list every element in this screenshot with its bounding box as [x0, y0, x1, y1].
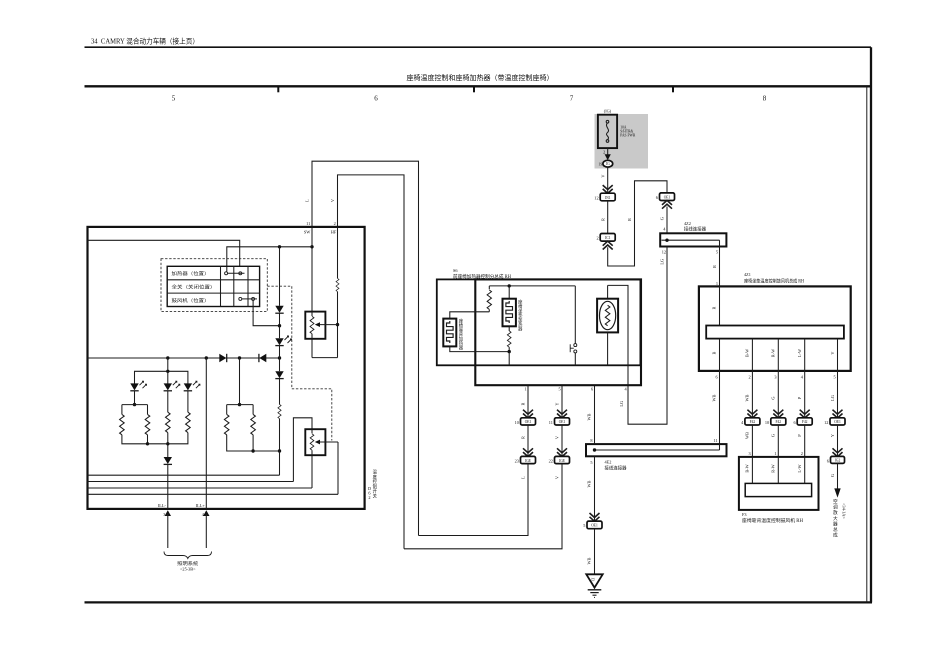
potentiometer VR1 heater level [305, 312, 337, 358]
svg-text:S6: S6 [453, 268, 458, 273]
header rule [85, 46, 872, 48]
diode D4 below rail [275, 358, 283, 405]
svg-text:5: 5 [172, 95, 176, 103]
svg-text:关: 关 [373, 493, 378, 500]
svg-text:V: V [330, 198, 335, 202]
seat heater elements box [437, 279, 641, 365]
svg-text:R: R [600, 218, 605, 221]
pin ILL- arrow [158, 503, 171, 548]
svg-text:R: R [712, 306, 717, 309]
wire WB to ground [587, 529, 595, 575]
svg-text:V: V [600, 174, 605, 178]
svg-text:6: 6 [793, 420, 796, 425]
wire R pin1 to 10(OE1) [520, 385, 528, 418]
temperature control switch box D62 [88, 227, 378, 509]
svg-text:L: L [304, 199, 309, 202]
svg-text:3: 3 [163, 512, 165, 517]
4Z1 internal feed wire R [712, 286, 720, 325]
svg-text:23: 23 [515, 458, 519, 463]
svg-text:10: 10 [765, 420, 769, 425]
LED indicator chain [275, 326, 291, 358]
LED L1 [130, 381, 146, 406]
wire P to F3 pin2 [797, 425, 805, 457]
wire R to 23(IGE) [520, 425, 528, 456]
wire L elbow to switch SW line [419, 464, 529, 536]
connector 10(F42) [765, 418, 786, 425]
zone ruler [85, 86, 872, 92]
pins 1 5 6 4 of S6 [525, 387, 628, 392]
connector 12(IN1) [594, 193, 615, 201]
svg-text:L-W: L-W [797, 348, 802, 357]
wire SW branch [227, 227, 314, 312]
ground point CI [586, 574, 602, 597]
chevron above 11(OE1) [557, 410, 567, 418]
wire WB seat box pin6 to junction pin 8 [587, 385, 595, 444]
4Z1 pins 6 2 3 4 5 [716, 374, 836, 379]
svg-text:6: 6 [827, 458, 830, 463]
svg-text:G: G [771, 396, 776, 399]
svg-text:F42: F42 [750, 420, 756, 424]
diode D1 on rail (points right) [219, 354, 226, 362]
svg-text:4: 4 [663, 227, 666, 232]
connector 4(F42) [741, 418, 760, 425]
svg-text:6: 6 [591, 387, 594, 392]
svg-text:F3: F3 [742, 512, 747, 517]
chevron above 4(F42) [747, 410, 757, 418]
junction connector 4Z2 [660, 221, 726, 254]
wire sensor top to pin 4 column [608, 285, 628, 385]
LED L2 [164, 381, 180, 412]
wire HF branch with resistor [336, 227, 339, 358]
seat temperature sensor [597, 285, 618, 365]
LED L3 [184, 381, 200, 412]
svg-text:IGE: IGE [559, 459, 566, 463]
svg-text:WB: WB [587, 413, 592, 420]
svg-text:PAS PWR: PAS PWR [620, 133, 636, 137]
svg-text:Y: Y [830, 434, 835, 437]
blower position contact [239, 297, 257, 300]
svg-text:IG: IG [606, 162, 610, 166]
svg-text:IG2: IG2 [835, 459, 841, 463]
right border thin [866, 86, 868, 602]
resistor pair P2 feed [238, 358, 241, 406]
zone numbers 5 6 7 8 [172, 95, 767, 103]
svg-text:前座椅加热器控制分总成 RH: 前座椅加热器控制分总成 RH [453, 273, 512, 280]
chevron below OE1 [662, 200, 672, 208]
wire loop IC1 to 6(OE1) with R [608, 181, 667, 266]
svg-text:L: L [520, 476, 525, 479]
connector 1S(IG) oval [599, 160, 613, 167]
svg-text:R-W: R-W [771, 348, 776, 357]
connector 22(IGE) [549, 456, 570, 463]
connector 6(F42) [793, 418, 812, 425]
svg-text:接线连接器: 接线连接器 [684, 226, 706, 233]
wire G to 10(F42) [771, 371, 779, 418]
svg-text:5: 5 [590, 460, 592, 465]
wire V to 12(IN1) [600, 167, 607, 193]
svg-text:V: V [830, 351, 835, 355]
svg-text:座椅温度控制和座椅加热器（带温度控制座椅）: 座椅温度控制和座椅加热器（带温度控制座椅） [407, 73, 554, 82]
blower assy 4Z1 box [699, 272, 851, 371]
svg-text:P: P [797, 396, 802, 399]
LED group top feed [135, 358, 188, 384]
svg-text:LG: LG [660, 259, 665, 265]
svg-text:6: 6 [656, 195, 659, 200]
heater position contact [225, 272, 245, 275]
svg-text:空: 空 [833, 498, 838, 505]
top rail node A [489, 284, 575, 287]
potentiometer VR2 temperature [293, 418, 338, 495]
resistor pair P2 [224, 405, 279, 453]
seat heater control sub-assy box S6 [453, 268, 641, 385]
wire WB 4Z1 pin6 to junction pin 11 [712, 371, 720, 444]
svg-text:OE1: OE1 [664, 196, 671, 200]
wire Y 12(OE1) to 6(IG2) [830, 425, 838, 456]
svg-text:R: R [627, 218, 632, 221]
svg-text:L-W: L-W [797, 464, 802, 473]
connector 5(OE1) [583, 521, 602, 529]
wire P to 6(F42) [797, 371, 805, 418]
svg-text:34 CAMRY 混合动力车辆（接上页）: 34 CAMRY 混合动力车辆（接上页） [91, 37, 199, 46]
svg-text:1: 1 [716, 281, 718, 286]
output bus lines [88, 475, 339, 494]
indicator feed rail [88, 356, 282, 359]
bottom frame line [85, 601, 873, 603]
svg-text:3: 3 [748, 451, 750, 456]
mechanical link dashed [267, 286, 332, 440]
svg-text:ILL+: ILL+ [196, 503, 206, 508]
chevron above 10(OE1) [523, 410, 533, 418]
svg-text:WB: WB [587, 557, 592, 564]
svg-text:器: 器 [833, 521, 838, 527]
chevron above IN1 [603, 185, 613, 193]
chevron above 6(IG2) [833, 448, 843, 456]
svg-text:全关（关闭位置）: 全关（关闭位置） [172, 284, 216, 291]
wire ILL+ [205, 358, 207, 509]
wire V to 22(IGE) [554, 425, 562, 456]
svg-text:4: 4 [625, 387, 628, 392]
svg-text:IGE: IGE [525, 459, 532, 463]
svg-text:OE1: OE1 [525, 420, 532, 424]
svg-text:R: R [520, 436, 525, 439]
svg-text:LG: LG [830, 395, 835, 401]
svg-text:4Z2: 4Z2 [684, 221, 691, 226]
seat cushion heater element [503, 286, 524, 333]
wire WB junction pin5 to 5(OE1) [587, 456, 595, 521]
blower F3 box [739, 457, 819, 524]
diagram title [407, 73, 554, 82]
svg-text:OE1: OE1 [591, 524, 598, 528]
connector 2(IC1) [596, 234, 615, 242]
header page title [91, 37, 199, 46]
seatback heater element [443, 318, 463, 352]
wire V riser to switch pin 2 [330, 175, 404, 549]
svg-text:G: G [771, 434, 776, 437]
wire R to 2(IC1) [600, 201, 607, 234]
chevron above 23(IGE) [523, 448, 533, 456]
wire L riser to switch pin 11 [304, 161, 418, 535]
svg-text:成: 成 [833, 532, 838, 539]
wire WB to 4(F42) [745, 371, 753, 418]
svg-text:IN1: IN1 [605, 196, 611, 200]
svg-text:G: G [830, 474, 835, 477]
svg-text:7: 7 [570, 95, 574, 103]
fuse block gray panel [595, 114, 649, 169]
connector 10(OE1) [515, 418, 536, 425]
resistor R-L2 [148, 412, 171, 457]
connector 11(OE1) [549, 418, 570, 425]
svg-text:F42: F42 [776, 420, 782, 424]
svg-text:Y: Y [554, 402, 559, 405]
wire V elbow to switch HF line [404, 464, 562, 549]
svg-text:22: 22 [549, 458, 553, 463]
svg-text:1: 1 [525, 387, 527, 392]
svg-text:10: 10 [515, 420, 519, 425]
svg-text:R: R [712, 265, 717, 268]
pin ILL+ arrow [196, 503, 210, 548]
wire seatback heater top to resistor [450, 312, 490, 319]
wire G pin4 into junction connector [660, 207, 667, 234]
mode select table [167, 266, 259, 306]
wire fuse to IG terminal, pin 2 [603, 148, 611, 160]
svg-text:IC1: IC1 [605, 236, 611, 240]
resistor chain bottom [278, 404, 281, 475]
wire R junction to blower pin 1 [712, 247, 720, 287]
svg-text:器: 器 [518, 327, 523, 333]
svg-text:OE1: OE1 [559, 420, 566, 424]
wire G to F3 pin1 [771, 425, 779, 457]
svg-text:3: 3 [774, 374, 776, 379]
4Z1 internal wires B B-W R-W L-W V [712, 339, 838, 371]
svg-text:放: 放 [833, 509, 838, 516]
svg-text:鼓风机（位置）: 鼓风机（位置） [172, 297, 210, 304]
svg-text:G: G [660, 217, 665, 220]
chevron above 12(OE1) [833, 410, 843, 418]
diode D5 ILL- [164, 457, 172, 509]
svg-text:2: 2 [603, 150, 605, 155]
svg-text:12: 12 [824, 420, 828, 425]
svg-text:调: 调 [833, 504, 838, 511]
chevron above 5(OE1) [590, 513, 600, 521]
svg-text:5: 5 [716, 249, 718, 254]
svg-text:P: P [797, 434, 802, 437]
svg-text:8: 8 [590, 438, 592, 443]
svg-text:接线连接器: 接线连接器 [605, 464, 627, 471]
connector 6(OE1) [656, 193, 675, 201]
A/C amplifier assy off-page label [833, 498, 847, 539]
connector 12(OE1) [824, 418, 845, 425]
brace to lighting system [164, 552, 212, 572]
svg-text:6: 6 [374, 95, 378, 103]
svg-text:B: B [712, 351, 717, 354]
svg-text:B-W: B-W [745, 348, 750, 357]
svg-text:5: 5 [834, 374, 836, 379]
svg-text:HF: HF [331, 230, 337, 235]
wire LG pin 4 elbow to junction pin 12 [619, 247, 667, 425]
svg-text:器: 器 [459, 346, 464, 352]
svg-text:2: 2 [596, 236, 598, 241]
chevron above 6(F42) [800, 410, 810, 418]
svg-text:4: 4 [741, 420, 744, 425]
connector 6(IG2) [827, 456, 845, 463]
right border thick [870, 47, 872, 602]
svg-text:ILL-: ILL- [158, 503, 167, 508]
wire blower contact to indicator chain [253, 300, 279, 325]
resistor below cushion heater [507, 326, 511, 365]
svg-text:12: 12 [662, 249, 666, 254]
chevron below IC1 [603, 241, 613, 249]
svg-text:2: 2 [801, 451, 803, 456]
svg-text:5: 5 [583, 523, 585, 528]
svg-text:WB: WB [745, 432, 750, 439]
svg-text:加热器（位置）: 加热器（位置） [172, 270, 210, 277]
svg-text:R-W: R-W [771, 463, 776, 472]
wire WB to F3 pin3 [745, 425, 753, 457]
resistor upper [487, 286, 491, 312]
4Z1 blower motor bar [706, 326, 844, 339]
svg-text:B-W: B-W [745, 463, 750, 472]
svg-text:8: 8 [763, 95, 767, 103]
wire G to A/C amplifier off-page arrow [830, 463, 841, 497]
svg-text:座椅坐垫温度控制鼓风机总成 RH: 座椅坐垫温度控制鼓风机总成 RH [744, 278, 805, 285]
svg-text:(IG): (IG) [604, 109, 612, 114]
fuse S/HTR 10A [598, 115, 636, 148]
svg-text:4Z1: 4Z1 [744, 272, 751, 277]
svg-text:11: 11 [306, 221, 310, 226]
svg-text:OE1: OE1 [834, 420, 841, 424]
svg-text:F42: F42 [802, 420, 808, 424]
svg-text:SW: SW [304, 230, 311, 235]
svg-text:总: 总 [833, 526, 838, 533]
internal feed line to table [88, 240, 240, 266]
switch pin labels SW HF [304, 230, 337, 235]
wire Y pin5 to 11(OE1) [554, 385, 562, 418]
svg-text:12: 12 [594, 195, 598, 200]
fuse label (IG) [604, 109, 612, 114]
chevron above 10(F42) [773, 410, 783, 418]
wire seatback heater bottom to node [450, 346, 509, 351]
connector 23(IGE) [515, 456, 536, 463]
diode D2 on rail (points left) [259, 354, 266, 362]
svg-text:5: 5 [559, 387, 561, 392]
svg-text:1: 1 [774, 451, 776, 456]
wire LG to 12(OE1) [830, 371, 838, 418]
svg-text:LG: LG [619, 401, 624, 407]
svg-text:2: 2 [368, 495, 370, 500]
svg-text:6: 6 [716, 374, 719, 379]
svg-text:<34-1A>: <34-1A> [842, 503, 847, 519]
diode D3 top of indicator chain [275, 247, 283, 328]
junction connector 4E2 [586, 438, 727, 472]
mode select table dashed frame [161, 259, 267, 312]
svg-text:4E2: 4E2 [605, 459, 612, 464]
svg-text:2: 2 [334, 221, 336, 226]
svg-text:4: 4 [801, 374, 804, 379]
svg-text:V: V [554, 475, 559, 479]
svg-text:2: 2 [748, 374, 750, 379]
svg-text:WB: WB [745, 394, 750, 401]
thermal switch [570, 286, 577, 365]
svg-text:大: 大 [833, 515, 838, 522]
svg-text:WB: WB [587, 480, 592, 487]
svg-text:座椅靠背温度控制鼓风机 RH: 座椅靠背温度控制鼓风机 RH [742, 517, 804, 524]
svg-text:R: R [520, 402, 525, 405]
svg-text:11: 11 [549, 420, 553, 425]
resistor pair P1 [120, 405, 150, 446]
svg-text:1S: 1S [599, 162, 603, 166]
resistor R-L3 [168, 412, 190, 444]
svg-text:11: 11 [714, 438, 718, 443]
svg-text:WB: WB [712, 394, 717, 401]
chevron above 22(IGE) [557, 448, 567, 456]
svg-text:V: V [554, 435, 559, 439]
svg-text:<25-3B>: <25-3B> [180, 567, 196, 572]
